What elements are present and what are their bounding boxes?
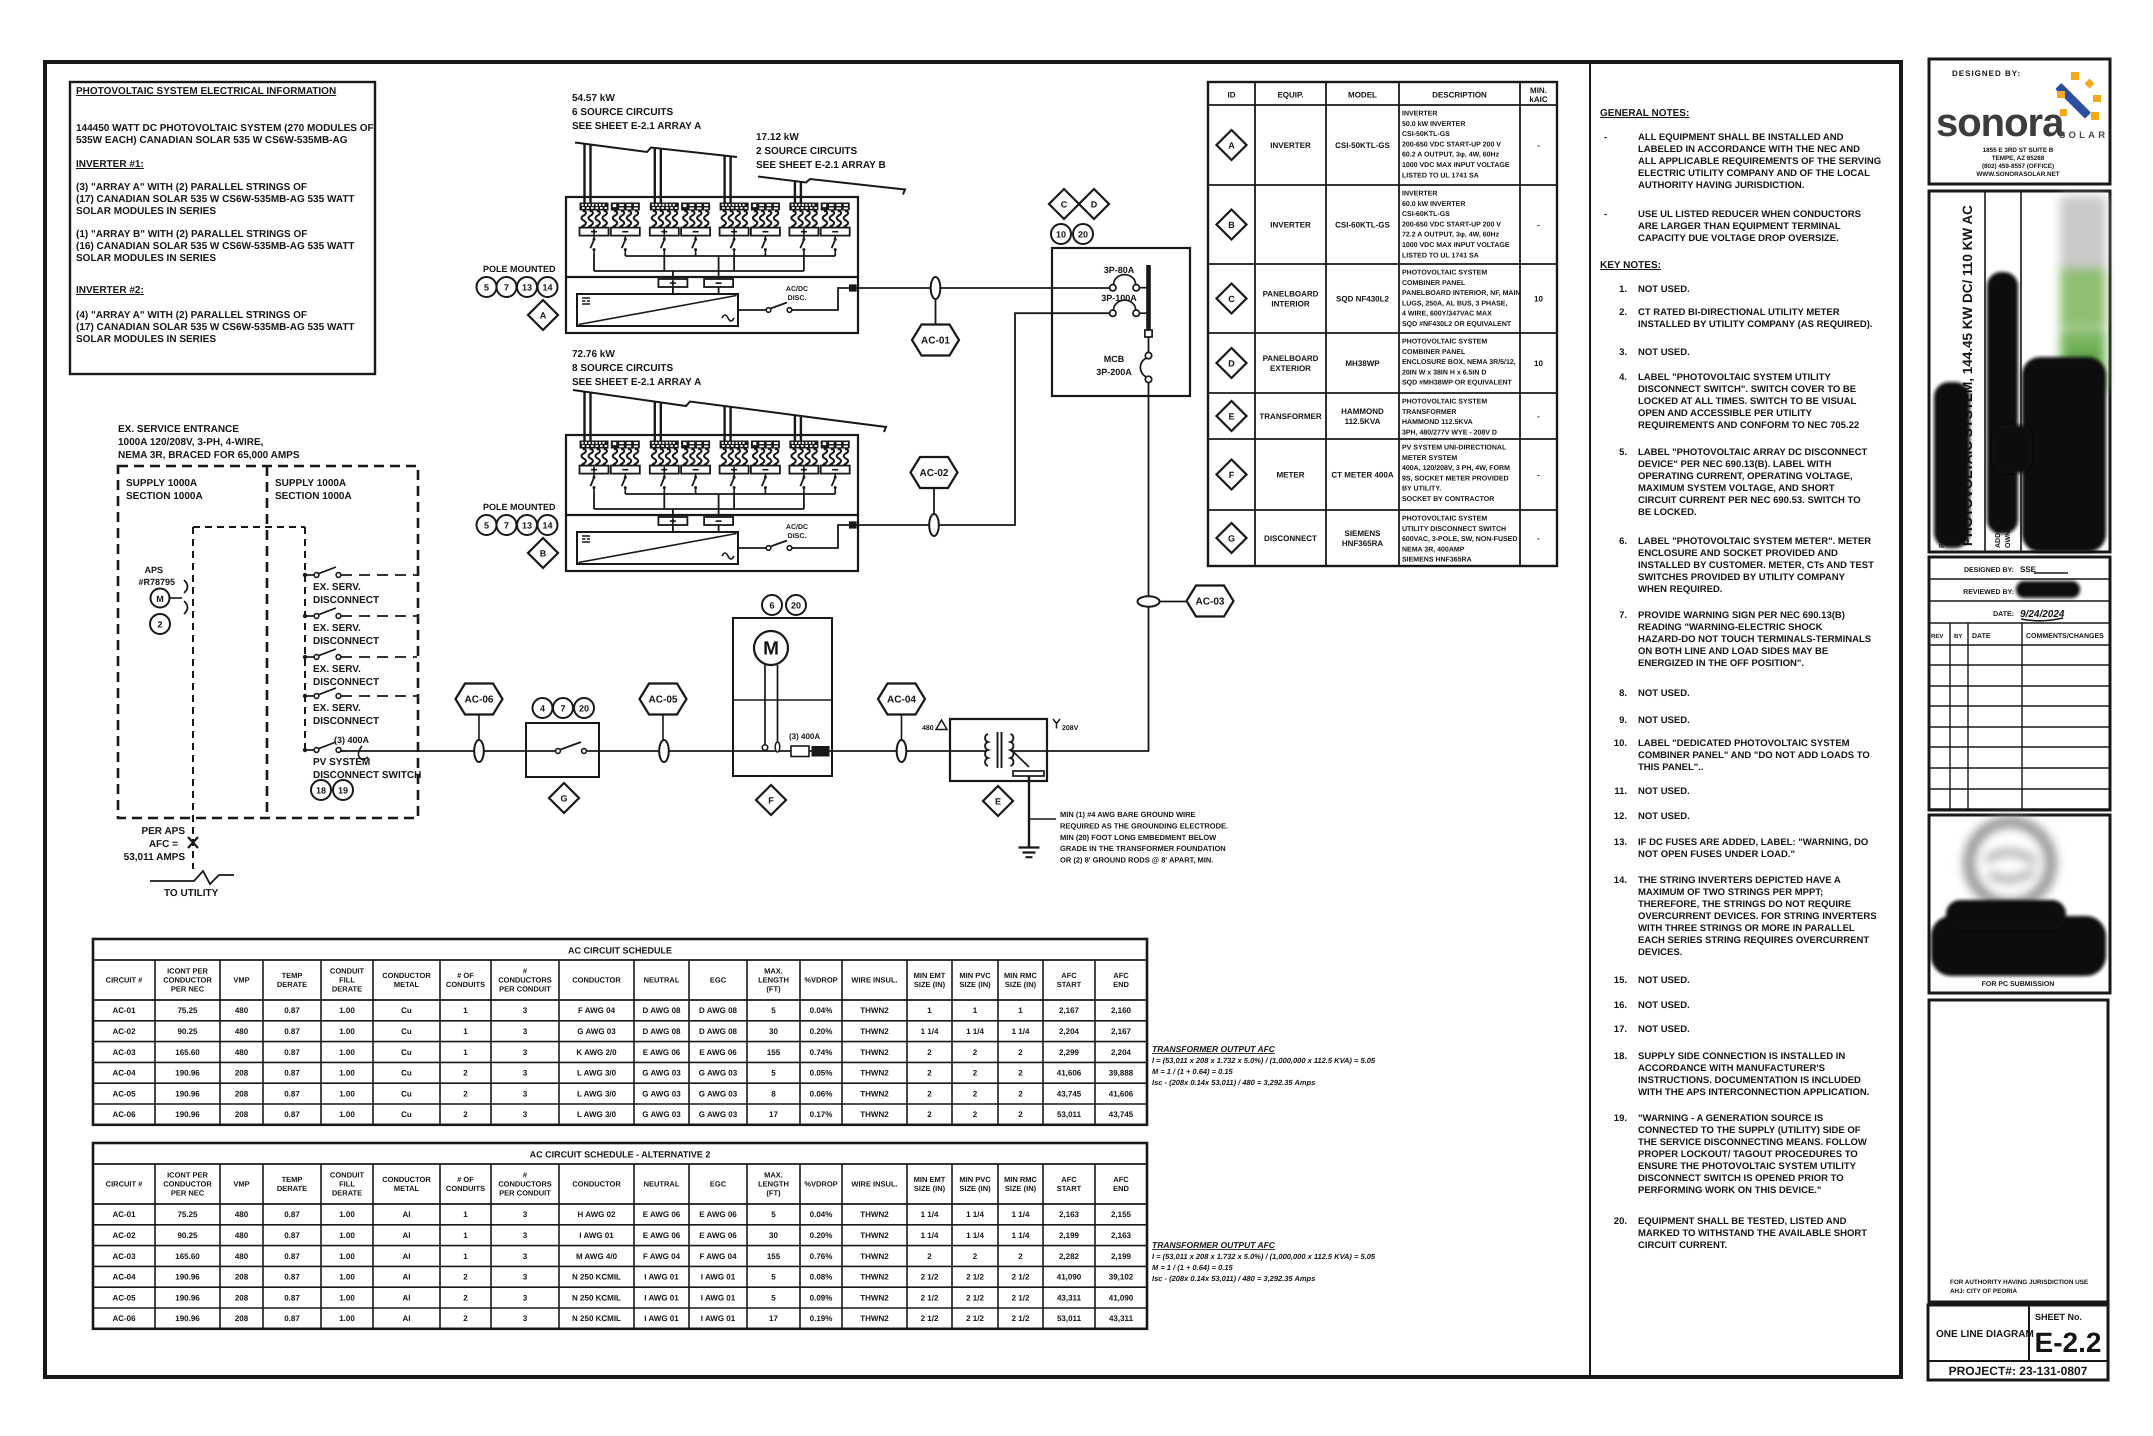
svg-text:HNF365RA: HNF365RA <box>1342 539 1384 548</box>
svg-text:M: M <box>156 594 164 604</box>
notes column separator wire <box>1589 62 1591 1377</box>
key note circles 18 19 <box>311 780 331 800</box>
svg-text:TRANSFORMER OUTPUT AFC: TRANSFORMER OUTPUT AFC <box>1152 1044 1276 1054</box>
PV system electrical information box <box>70 82 375 374</box>
svg-text:ELECTRIC UTILITY COMPANY AND O: ELECTRIC UTILITY COMPANY AND OF THE LOCA… <box>1638 168 1870 179</box>
svg-text:10: 10 <box>1534 295 1543 304</box>
svg-text:M = 1 / (1 + 0.64) = 0.15: M = 1 / (1 + 0.64) = 0.15 <box>1152 1067 1234 1076</box>
svg-text:#R78795: #R78795 <box>138 577 175 587</box>
svg-text:E AWG 06: E AWG 06 <box>699 1210 737 1219</box>
svg-text:CONNECTED TO THE SUPPLY (UTILI: CONNECTED TO THE SUPPLY (UTILITY) SIDE O… <box>1638 1125 1861 1136</box>
inverter B (unit B) combiner box <box>566 435 858 571</box>
svg-text:SIZE (IN): SIZE (IN) <box>959 980 991 989</box>
svg-text:THWN2: THWN2 <box>860 1048 889 1057</box>
svg-text:L AWG 3/0: L AWG 3/0 <box>577 1069 617 1078</box>
svg-text:Al: Al <box>403 1314 411 1323</box>
array A roof feeder diagonal (inverter A) <box>575 143 737 158</box>
key note circles 4 7 20 above G <box>533 698 553 718</box>
svg-text:5: 5 <box>484 282 489 292</box>
conduit oval AC-01 <box>931 277 941 299</box>
svg-text:AC-03: AC-03 <box>112 1252 136 1261</box>
border frame <box>45 62 1901 1377</box>
svg-text:D AWG 08: D AWG 08 <box>643 1027 681 1036</box>
svg-text:SIZE (IN): SIZE (IN) <box>914 1184 946 1193</box>
svg-text:0.20%: 0.20% <box>810 1231 833 1240</box>
svg-text:2: 2 <box>463 1273 468 1282</box>
svg-text:2 1/2: 2 1/2 <box>921 1314 939 1323</box>
svg-text:2: 2 <box>463 1069 468 1078</box>
svg-text:THWN2: THWN2 <box>860 1273 889 1282</box>
svg-text:THWN2: THWN2 <box>860 1069 889 1078</box>
svg-text:PER CONDUIT: PER CONDUIT <box>499 1189 551 1198</box>
svg-text:DISCONNECT SWITCH IS OPENED PR: DISCONNECT SWITCH IS OPENED PRIOR TO <box>1638 1173 1844 1184</box>
svg-text:AC CIRCUIT SCHEDULE - ALTERNAT: AC CIRCUIT SCHEDULE - ALTERNATIVE 2 <box>530 1150 711 1160</box>
svg-text:480: 480 <box>922 725 934 732</box>
svg-text:CSI-60KTL-GS: CSI-60KTL-GS <box>1335 220 1390 229</box>
svg-text:I AWG 01: I AWG 01 <box>701 1293 736 1302</box>
wire AC-01: inverter A output to combiner breaker 3P-80A <box>857 287 1110 289</box>
DC negative terminal bar inverter B (unit B) <box>704 517 733 525</box>
svg-text:DERATE: DERATE <box>277 1184 307 1193</box>
svg-text:0.20%: 0.20% <box>810 1027 833 1036</box>
svg-text:0.87: 0.87 <box>284 1252 300 1261</box>
svg-text:THWN2: THWN2 <box>860 1210 889 1219</box>
svg-text:COMBINER PANEL" AND "DO NOT AD: COMBINER PANEL" AND "DO NOT ADD LOADS TO <box>1638 750 1870 761</box>
svg-text:DERATE: DERATE <box>332 985 362 994</box>
DC positive terminal bar inverter A (unit A) <box>658 279 687 287</box>
svg-text:165.60: 165.60 <box>175 1048 200 1057</box>
svg-text:480: 480 <box>235 1006 249 1015</box>
svg-text:208: 208 <box>235 1293 249 1302</box>
svg-text:2: 2 <box>463 1314 468 1323</box>
svg-text:41,090: 41,090 <box>1109 1293 1134 1302</box>
svg-text:L AWG 3/0: L AWG 3/0 <box>577 1089 617 1098</box>
svg-text:F AWG 04: F AWG 04 <box>578 1006 616 1015</box>
svg-text:(FT): (FT) <box>766 985 781 994</box>
svg-text:AC-01: AC-01 <box>921 336 950 347</box>
svg-text:90.25: 90.25 <box>177 1027 198 1036</box>
svg-text:(16) CANADIAN SOLAR 535 W CS6W: (16) CANADIAN SOLAR 535 W CS6W-535MB-AG … <box>76 241 355 252</box>
svg-text:2: 2 <box>973 1110 978 1119</box>
svg-text:MODEL: MODEL <box>1348 91 1377 100</box>
svg-text:N 250 KCMIL: N 250 KCMIL <box>572 1293 621 1302</box>
svg-text:PERFORMING WORK ON THIS DEVICE: PERFORMING WORK ON THIS DEVICE." <box>1638 1185 1821 1196</box>
svg-text:F AWG 04: F AWG 04 <box>643 1252 681 1261</box>
svg-text:ENCLOSURE BOX, NEMA 3R/5/12,: ENCLOSURE BOX, NEMA 3R/5/12, <box>1402 358 1516 366</box>
DC positive terminal bar inverter B (unit B) <box>658 517 687 525</box>
svg-text:METER SYSTEM: METER SYSTEM <box>1402 455 1457 462</box>
svg-text:2,167: 2,167 <box>1059 1006 1080 1015</box>
svg-text:5.: 5. <box>1619 447 1627 458</box>
svg-text:(3) "ARRAY A" WITH (2) PARALLE: (3) "ARRAY A" WITH (2) PARALLEL STRINGS … <box>76 182 307 193</box>
svg-text:2: 2 <box>1018 1048 1023 1057</box>
utility disconnect switch G box <box>526 723 599 777</box>
svg-text:2 1/2: 2 1/2 <box>1012 1314 1030 1323</box>
svg-text:0.87: 0.87 <box>284 1273 300 1282</box>
svg-text:F AWG 04: F AWG 04 <box>699 1252 737 1261</box>
svg-text:PROPER LOCKOUT/ TAGOUT PROCEDU: PROPER LOCKOUT/ TAGOUT PROCEDURES TO <box>1638 1149 1858 1160</box>
svg-text:2 1/2: 2 1/2 <box>1012 1273 1030 1282</box>
bus node square <box>1145 330 1152 337</box>
svg-text:5: 5 <box>771 1210 776 1219</box>
svg-text:AC-04: AC-04 <box>112 1069 136 1078</box>
equipment tag diamond A (table) <box>1217 130 1247 160</box>
svg-text:SIZE (IN): SIZE (IN) <box>914 980 946 989</box>
svg-text:1000 VDC MAX INPUT VOLTAGE: 1000 VDC MAX INPUT VOLTAGE <box>1402 242 1510 249</box>
svg-text:144450 WATT DC PHOTOVOLTAIC SY: 144450 WATT DC PHOTOVOLTAIC SYSTEM (270 … <box>76 123 374 134</box>
svg-text:CIRCUIT #: CIRCUIT # <box>106 1180 143 1189</box>
equipment tag diamond E (table) <box>1217 401 1247 431</box>
svg-text:COMMENTS/CHANGES: COMMENTS/CHANGES <box>2026 632 2104 640</box>
svg-text:INVERTER: INVERTER <box>1402 191 1437 198</box>
svg-text:0.87: 0.87 <box>284 1027 300 1036</box>
svg-text:AC-05: AC-05 <box>112 1089 136 1098</box>
svg-text:3P-200A: 3P-200A <box>1096 367 1132 377</box>
svg-text:CT RATED BI-DIRECTIONAL UTILIT: CT RATED BI-DIRECTIONAL UTILITY METER <box>1638 307 1840 318</box>
svg-text:3.: 3. <box>1619 347 1627 358</box>
svg-text:TEMPE, AZ 85288: TEMPE, AZ 85288 <box>1992 155 2045 162</box>
svg-text:FOR AUTHORITY HAVING JURISDICT: FOR AUTHORITY HAVING JURISDICTION USE <box>1950 1279 2088 1286</box>
svg-text:EX. SERV.: EX. SERV. <box>313 582 361 593</box>
svg-text:NEUTRAL: NEUTRAL <box>644 976 680 985</box>
svg-text:CSI-50KTL-GS: CSI-50KTL-GS <box>1402 131 1450 138</box>
svg-text:INVERTER: INVERTER <box>1270 220 1311 229</box>
svg-text:THIS PANEL"..: THIS PANEL".. <box>1638 762 1704 773</box>
svg-text:COMBINER PANEL: COMBINER PANEL <box>1402 280 1466 287</box>
conduit oval AC-05 <box>659 740 669 762</box>
svg-text:FILL: FILL <box>339 1180 355 1189</box>
title block: project information box <box>1929 191 2110 552</box>
svg-text:SOLAR: SOLAR <box>2059 130 2108 141</box>
svg-text:(17) CANADIAN SOLAR 535 W CS6W: (17) CANADIAN SOLAR 535 W CS6W-535MB-AG … <box>76 322 355 333</box>
svg-text:INVERTER #1:: INVERTER #1: <box>76 159 144 170</box>
svg-text:11.: 11. <box>1614 786 1627 797</box>
svg-text:EXTERIOR: EXTERIOR <box>1270 364 1311 373</box>
svg-text:SECTION 1000A: SECTION 1000A <box>126 491 203 502</box>
svg-text:kAIC: kAIC <box>1529 95 1547 104</box>
svg-text:2,160: 2,160 <box>1111 1006 1132 1015</box>
svg-text:75.25: 75.25 <box>177 1006 198 1015</box>
svg-text:VMP: VMP <box>233 1180 249 1189</box>
svg-text:1: 1 <box>463 1231 468 1240</box>
svg-text:165.60: 165.60 <box>175 1252 200 1261</box>
svg-text:OR (2) 8' GROUND RODS @ 8' APA: OR (2) 8' GROUND RODS @ 8' APART, MIN. <box>1060 856 1213 865</box>
svg-text:0.17%: 0.17% <box>810 1110 833 1119</box>
svg-text:0.87: 0.87 <box>284 1048 300 1057</box>
svg-text:190.96: 190.96 <box>175 1293 200 1302</box>
svg-text:I AWG 01: I AWG 01 <box>579 1231 614 1240</box>
svg-text:(17) CANADIAN SOLAR 535 W CS6W: (17) CANADIAN SOLAR 535 W CS6W-535MB-AG … <box>76 194 355 205</box>
svg-text:AHJ: CITY OF PEORIA: AHJ: CITY OF PEORIA <box>1950 1288 2018 1295</box>
svg-text:LABEL "PHOTOVOLTAIC SYSTEM MET: LABEL "PHOTOVOLTAIC SYSTEM METER". METER <box>1638 536 1871 547</box>
svg-text:SQD #NF430L2 OR EQUIVALENT: SQD #NF430L2 OR EQUIVALENT <box>1402 321 1512 328</box>
svg-text:480: 480 <box>235 1252 249 1261</box>
svg-text:BY UTILITY.: BY UTILITY. <box>1402 486 1441 493</box>
svg-text:60.0 kW INVERTER: 60.0 kW INVERTER <box>1402 200 1465 208</box>
svg-text:VMP: VMP <box>233 976 249 985</box>
service entrance dashed enclosure supply section 1 <box>118 466 418 818</box>
svg-text:2,282: 2,282 <box>1059 1252 1080 1261</box>
svg-text:LABEL "DEDICATED PHOTOVOLTAIC: LABEL "DEDICATED PHOTOVOLTAIC SYSTEM <box>1638 738 1850 749</box>
svg-text:PHOTOVOLTAIC SYSTEM: PHOTOVOLTAIC SYSTEM <box>1402 339 1487 346</box>
svg-text:ALL EQUIPMENT SHALL BE INSTALL: ALL EQUIPMENT SHALL BE INSTALLED AND <box>1638 132 1844 143</box>
svg-text:5: 5 <box>771 1006 776 1015</box>
svg-text:DATE: DATE <box>1972 633 1991 640</box>
svg-text:41,090: 41,090 <box>1057 1273 1082 1282</box>
svg-text:480: 480 <box>235 1027 249 1036</box>
wire AC-03: MCB output down to transformer <box>1047 383 1149 751</box>
AC-02 circuit tag <box>933 488 935 514</box>
to utility break symbol <box>150 871 234 884</box>
svg-text:5: 5 <box>771 1069 776 1078</box>
svg-text:I = (53,011 x 208 x 1.732 x 5.: I = (53,011 x 208 x 1.732 x 5.0%) / (1,0… <box>1152 1056 1376 1065</box>
svg-text:DISCONNECT: DISCONNECT <box>313 636 379 647</box>
svg-text:OPERATING CURRENT, OPERATING V: OPERATING CURRENT, OPERATING VOLTAGE, <box>1638 471 1853 482</box>
svg-text:NOT USED.: NOT USED. <box>1638 975 1690 986</box>
svg-text:2 1/2: 2 1/2 <box>921 1293 939 1302</box>
svg-text:1: 1 <box>1018 1006 1023 1015</box>
svg-text:5: 5 <box>771 1293 776 1302</box>
svg-text:H AWG 02: H AWG 02 <box>578 1210 616 1219</box>
svg-text:WIRE INSUL.: WIRE INSUL. <box>851 1180 897 1189</box>
svg-text:53,011 AMPS: 53,011 AMPS <box>124 852 186 863</box>
array A roof feeder diagonal (inverter B) <box>573 390 886 432</box>
svg-text:0.05%: 0.05% <box>810 1069 833 1078</box>
svg-text:2 1/2: 2 1/2 <box>966 1314 984 1323</box>
svg-text:DISCONNECT: DISCONNECT <box>1264 534 1317 543</box>
svg-text:-: - <box>1537 412 1540 421</box>
svg-text:MAX.: MAX. <box>764 967 783 976</box>
svg-text:KEY NOTES:: KEY NOTES: <box>1600 260 1661 271</box>
svg-text:INSTRUCTIONS. DOCUMENTATION IS: INSTRUCTIONS. DOCUMENTATION IS INCLUDED <box>1638 1075 1861 1086</box>
svg-text:ENSURE THE PHOTOVOLTAIC SYSTEM: ENSURE THE PHOTOVOLTAIC SYSTEM UTILITY <box>1638 1161 1857 1172</box>
svg-text:THWN2: THWN2 <box>860 1252 889 1261</box>
svg-text:1000A 120/208V, 3-PH, 4-WIRE,: 1000A 120/208V, 3-PH, 4-WIRE, <box>118 437 264 448</box>
svg-text:6.: 6. <box>1619 536 1627 547</box>
svg-text:WITH THE APS INTERCONNECTION A: WITH THE APS INTERCONNECTION APPLICATION… <box>1638 1087 1869 1098</box>
svg-text:G AWG 03: G AWG 03 <box>642 1069 681 1078</box>
svg-text:AC-01: AC-01 <box>112 1210 136 1219</box>
svg-text:NOT OPEN FUSES UNDER LOAD.": NOT OPEN FUSES UNDER LOAD." <box>1638 849 1795 860</box>
AC-04 circuit tag <box>878 684 925 715</box>
svg-text:N 250 KCMIL: N 250 KCMIL <box>572 1273 621 1282</box>
svg-text:10: 10 <box>1534 359 1543 368</box>
transformer secondary wire out <box>1011 750 1048 752</box>
svg-text:(3) 400A: (3) 400A <box>334 735 370 745</box>
svg-text:20.: 20. <box>1614 1216 1627 1227</box>
svg-text:(FT): (FT) <box>766 1189 781 1198</box>
svg-text:18.: 18. <box>1614 1051 1627 1062</box>
svg-text:-: - <box>1537 141 1540 150</box>
AFC point X mark <box>188 837 198 848</box>
svg-text:53,011: 53,011 <box>1057 1110 1082 1119</box>
svg-text:DISCONNECT SWITCH". SWITCH COV: DISCONNECT SWITCH". SWITCH COVER TO BE <box>1638 384 1856 395</box>
svg-text:(3) 400A: (3) 400A <box>789 732 820 741</box>
svg-text:14: 14 <box>542 282 552 292</box>
svg-text:LENGTH: LENGTH <box>758 1180 789 1189</box>
svg-text:LOCKED AT ALL TIMES. SWITCH TO: LOCKED AT ALL TIMES. SWITCH TO BE VISUAL <box>1638 396 1857 407</box>
svg-text:3: 3 <box>523 1273 528 1282</box>
equipment schedule table <box>1208 82 1557 566</box>
svg-text:480: 480 <box>235 1231 249 1240</box>
svg-text:1: 1 <box>927 1006 932 1015</box>
svg-text:3: 3 <box>523 1069 528 1078</box>
svg-text:DEVICES.: DEVICES. <box>1638 947 1682 958</box>
PV source-circuit terminal/fuse group 2 (-) inverter A (unit A) <box>611 203 640 254</box>
svg-text:17.: 17. <box>1614 1024 1627 1035</box>
svg-text:1 1/4: 1 1/4 <box>966 1231 984 1240</box>
svg-text:5: 5 <box>771 1273 776 1282</box>
svg-text:ALL APPLICABLE REQUIREMENTS OF: ALL APPLICABLE REQUIREMENTS OF THE SERVI… <box>1638 156 1881 167</box>
svg-text:AC-06: AC-06 <box>112 1110 136 1119</box>
svg-text:Al: Al <box>403 1293 411 1302</box>
svg-text:PANELBOARD INTERIOR, NF, MAIN: PANELBOARD INTERIOR, NF, MAIN <box>1402 290 1520 297</box>
svg-text:SIEMENS HNF365RA: SIEMENS HNF365RA <box>1402 557 1472 564</box>
svg-text:2: 2 <box>973 1252 978 1261</box>
svg-text:0.04%: 0.04% <box>810 1210 833 1219</box>
svg-text:CIRCUIT #: CIRCUIT # <box>106 976 143 985</box>
svg-text:G AWG 03: G AWG 03 <box>699 1089 738 1098</box>
transformer neutral bar and bond <box>1012 750 1030 767</box>
svg-text:MIN EMT: MIN EMT <box>914 1175 946 1184</box>
svg-text:2 1/2: 2 1/2 <box>1012 1293 1030 1302</box>
svg-text:THWN2: THWN2 <box>860 1293 889 1302</box>
svg-text:155: 155 <box>767 1048 781 1057</box>
svg-text:INVERTER: INVERTER <box>1402 111 1437 118</box>
svg-text:MIN EMT: MIN EMT <box>914 971 946 980</box>
svg-text:EQUIPMENT SHALL BE TESTED, LIS: EQUIPMENT SHALL BE TESTED, LISTED AND <box>1638 1216 1847 1227</box>
svg-text:EX. SERV.: EX. SERV. <box>313 703 361 714</box>
svg-text:E: E <box>1228 411 1234 421</box>
key note circles 6 20 above F <box>762 595 782 615</box>
svg-text:PHOTOVOLTAIC SYSTEM: PHOTOVOLTAIC SYSTEM <box>1402 399 1487 406</box>
svg-text:7.: 7. <box>1619 610 1627 621</box>
svg-text:15.: 15. <box>1614 975 1627 986</box>
svg-text:7: 7 <box>504 520 509 530</box>
PV source-circuit terminal/fuse group 6 (-) inverter B (unit B) <box>751 441 780 492</box>
svg-text:EQUIP.: EQUIP. <box>1277 91 1303 100</box>
svg-text:2,204: 2,204 <box>1059 1027 1080 1036</box>
svg-text:MIN (20) FOOT LONG EMBEDMENT B: MIN (20) FOOT LONG EMBEDMENT BELOW <box>1060 833 1217 842</box>
svg-text:41,606: 41,606 <box>1109 1089 1134 1098</box>
svg-text:2,155: 2,155 <box>1111 1210 1132 1219</box>
svg-text:HAMMOND: HAMMOND <box>1341 407 1384 416</box>
array B roof feeder diagonal (inverter A) <box>758 177 905 195</box>
svg-text:12.: 12. <box>1614 811 1627 822</box>
PV source-circuit terminal/fuse group 1 (+) inverter A (unit A) <box>580 203 609 254</box>
svg-text:%VDROP: %VDROP <box>804 1180 837 1189</box>
svg-text:F: F <box>1229 470 1235 480</box>
svg-text:LABEL "PHOTOVOLTAIC SYSTEM UTI: LABEL "PHOTOVOLTAIC SYSTEM UTILITY <box>1638 372 1831 383</box>
equipment tag diamond D <box>1079 189 1109 219</box>
svg-text:2: 2 <box>463 1293 468 1302</box>
svg-text:1.00: 1.00 <box>339 1293 355 1302</box>
svg-text:1.00: 1.00 <box>339 1006 355 1015</box>
svg-text:TEMP: TEMP <box>282 1175 303 1184</box>
svg-text:ICONT PER: ICONT PER <box>167 967 208 976</box>
svg-text:NOT USED.: NOT USED. <box>1638 1024 1690 1035</box>
svg-text:I AWG 01: I AWG 01 <box>701 1273 736 1282</box>
svg-text:METER: METER <box>1277 470 1305 479</box>
grounding electrode conductor <box>1028 776 1030 847</box>
svg-text:E AWG 06: E AWG 06 <box>643 1231 681 1240</box>
svg-text:GENERAL NOTES:: GENERAL NOTES: <box>1600 108 1689 119</box>
svg-text:2 SOURCE CIRCUITS: 2 SOURCE CIRCUITS <box>756 146 857 157</box>
svg-text:HAMMOND 112.5KVA: HAMMOND 112.5KVA <box>1402 419 1473 426</box>
svg-text:1: 1 <box>463 1048 468 1057</box>
PV source-circuit terminal/fuse group 7 (+) inverter B (unit B) <box>789 441 818 492</box>
svg-text:10: 10 <box>1056 229 1066 239</box>
svg-text:MCB: MCB <box>1104 354 1125 364</box>
svg-text:SIEMENS: SIEMENS <box>1344 529 1381 538</box>
svg-text:D AWG 08: D AWG 08 <box>643 1006 681 1015</box>
svg-text:SOCKET BY CONTRACTOR: SOCKET BY CONTRACTOR <box>1402 496 1494 503</box>
svg-text:CONDUITS: CONDUITS <box>446 980 485 989</box>
ex. service disconnect switch 3 <box>303 655 307 659</box>
svg-text:30: 30 <box>769 1231 778 1240</box>
svg-text:LABELED IN ACCORDANCE WITH THE: LABELED IN ACCORDANCE WITH THE NEC AND <box>1638 144 1860 155</box>
svg-text:600VAC, 3-POLE, SW, NON-FUSED: 600VAC, 3-POLE, SW, NON-FUSED <box>1402 536 1517 543</box>
inverter B (unit B) AC output wire to box edge pin <box>792 525 849 548</box>
svg-text:ICONT PER: ICONT PER <box>167 1171 208 1180</box>
svg-text:OPEN AND ACCESSIBLE PER UTILIT: OPEN AND ACCESSIBLE PER UTILITY <box>1638 408 1813 419</box>
secondary voltage label 208V wye <box>1053 719 1060 729</box>
DC negative terminal bar inverter A (unit A) <box>704 279 733 287</box>
title block: designed-by box <box>1929 59 2110 184</box>
svg-text:READING "WARNING-ELECTRIC SHOC: READING "WARNING-ELECTRIC SHOCK <box>1638 622 1823 633</box>
svg-text:WITH THREE STRINGS OR MORE IN: WITH THREE STRINGS OR MORE IN PARALLEL <box>1638 923 1855 934</box>
svg-text:Cu: Cu <box>401 1006 412 1015</box>
svg-text:0.87: 0.87 <box>284 1210 300 1219</box>
svg-text:COMBINER PANEL: COMBINER PANEL <box>1402 349 1466 356</box>
svg-text:AC/DC: AC/DC <box>786 523 808 531</box>
svg-text:1.00: 1.00 <box>339 1110 355 1119</box>
svg-text:E: E <box>995 797 1001 807</box>
svg-text:0.87: 0.87 <box>284 1069 300 1078</box>
svg-text:ENCLOSURE AND SOCKET PROVIDED: ENCLOSURE AND SOCKET PROVIDED AND <box>1638 548 1838 559</box>
svg-text:14.: 14. <box>1614 875 1627 886</box>
svg-text:DATE:: DATE: <box>1993 611 2014 618</box>
svg-text:CONDUCTOR: CONDUCTOR <box>572 976 621 985</box>
PV source-circuit terminal/fuse group 4 (-) inverter B (unit B) <box>681 441 710 492</box>
svg-text:G AWG 03: G AWG 03 <box>577 1027 616 1036</box>
svg-text:0.87: 0.87 <box>284 1089 300 1098</box>
svg-text:K AWG 2/0: K AWG 2/0 <box>576 1048 617 1057</box>
svg-text:112.5KVA: 112.5KVA <box>1345 417 1381 426</box>
svg-text:THWN2: THWN2 <box>860 1314 889 1323</box>
equipment tag diamond D (table) <box>1217 348 1247 378</box>
svg-text:-: - <box>1537 534 1540 543</box>
svg-text:AC-05: AC-05 <box>112 1293 136 1302</box>
svg-text:L AWG 3/0: L AWG 3/0 <box>577 1110 617 1119</box>
svg-text:2: 2 <box>463 1089 468 1098</box>
svg-text:AC-05: AC-05 <box>649 695 678 706</box>
svg-text:AFC: AFC <box>1113 1175 1129 1184</box>
svg-text:1.00: 1.00 <box>339 1069 355 1078</box>
svg-text:NOT USED.: NOT USED. <box>1638 284 1690 295</box>
svg-text:1.00: 1.00 <box>339 1273 355 1282</box>
svg-text:CONDUCTOR: CONDUCTOR <box>382 971 431 980</box>
svg-text:(802) 459-8557 (OFFICE): (802) 459-8557 (OFFICE) <box>1982 163 2054 170</box>
svg-text:6 SOURCE CIRCUITS: 6 SOURCE CIRCUITS <box>572 107 673 118</box>
svg-text:200-650 VDC START-UP 200 V: 200-650 VDC START-UP 200 V <box>1402 221 1501 228</box>
AC-06 circuit tag <box>456 684 503 715</box>
transformer secondary winding <box>1011 734 1014 766</box>
svg-text:1: 1 <box>463 1027 468 1036</box>
svg-text:AFC: AFC <box>1113 971 1129 980</box>
svg-text:Isc - (208x 0.14x 53,011) / 48: Isc - (208x 0.14x 53,011) / 480 = 3,292.… <box>1152 1274 1315 1283</box>
svg-text:PHOTOVOLTAIC SYSTEM ELECTRICAL: PHOTOVOLTAIC SYSTEM ELECTRICAL INFORMATI… <box>76 86 336 97</box>
